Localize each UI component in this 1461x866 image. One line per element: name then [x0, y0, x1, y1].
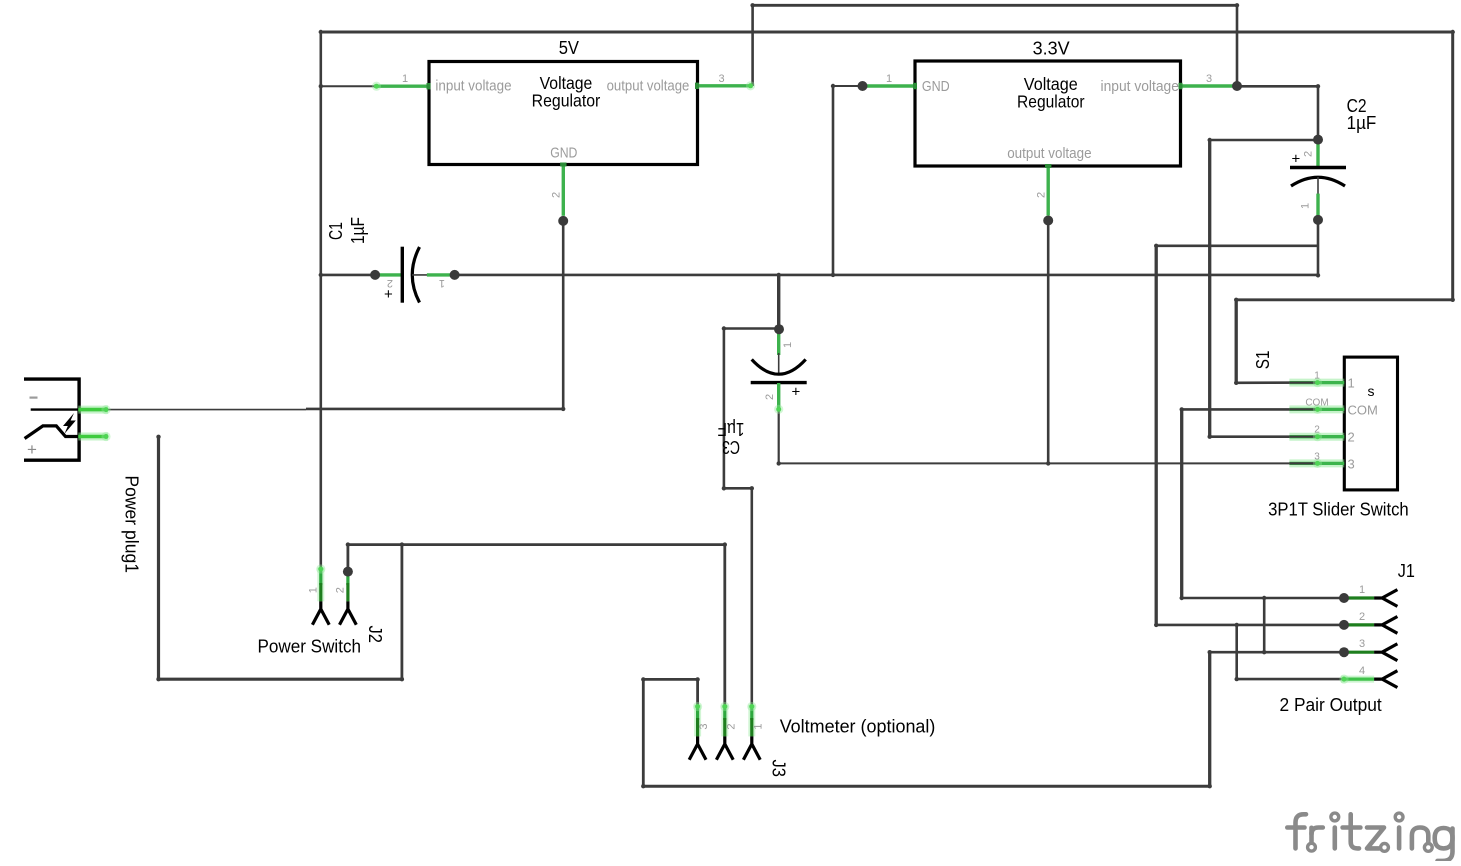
voltage regulator U2 (3.3V) body	[915, 61, 1181, 166]
svg-text:1: 1	[1300, 203, 1312, 209]
C2 pin 2 green lead	[1316, 140, 1319, 168]
svg-text:1µF: 1µF	[1347, 113, 1377, 133]
wire segment: COM vertical x=1181.7 down to J1 pin1 wire	[1180, 409, 1183, 598]
J2 pin 1 female connector symbol	[312, 601, 329, 624]
wire: J3 pin3 drop x=697.6	[696, 679, 699, 706]
wire: J1 pin3 drop x=1209.7 down to bottom rail	[1208, 652, 1211, 786]
wire: J1 pin2 wire y=624.9	[1156, 624, 1344, 627]
node: bend at (697.6,679.4)	[695, 677, 699, 681]
wire: C3 pin1 horizontal y=328.5 to voltmeter loop	[724, 327, 779, 330]
C3 curved plate	[752, 359, 806, 374]
wire segment: 5V GND vertical x=563.2	[562, 221, 565, 409]
wire: C3 pin2 drop x=778.3 to S1 pin3 rail	[778, 410, 780, 464]
node: bend at (1318,86.3)	[1316, 84, 1320, 88]
svg-text:3: 3	[718, 73, 724, 85]
node: bend at (1236.2,382.8)	[1234, 381, 1238, 385]
node: bend at (1156.2,624.9)	[1154, 623, 1158, 627]
node: T-junction at (401.9,544.6)	[400, 542, 404, 546]
svg-text:3: 3	[1314, 451, 1320, 462]
svg-text:GND: GND	[550, 145, 577, 162]
wire: S1 pin3 rail y=463.4 from C3 column to S1 pin3	[779, 462, 1318, 464]
svg-text:COM: COM	[1305, 397, 1328, 408]
svg-text:1: 1	[752, 723, 764, 729]
node: bend at (1452.7,299.8)	[1451, 298, 1455, 302]
node: bend at (643.3,786.2)	[641, 784, 645, 788]
connector J1 pin 2 green lead	[1344, 623, 1374, 626]
node: wire end dot at C2 pin1	[1313, 215, 1323, 225]
J1 pin 3 female connector symbol	[1374, 644, 1397, 661]
node: wire end dot at C3 pin1	[774, 324, 784, 334]
C1 pin 2 green lead	[375, 273, 402, 276]
node: T-junction at (778.7,274.9)	[777, 273, 781, 277]
wire: power plug minus lead thin segment	[106, 409, 306, 411]
wire segment: vertical x=723.9 from C3 row down to J3 pin1 jog	[723, 329, 726, 489]
svg-text:Regulator: Regulator	[1017, 92, 1085, 112]
wire: voltmeter loop top y=679.4	[643, 678, 697, 681]
J1 pin 1 female connector symbol	[1374, 590, 1397, 607]
node: bend at (1209.7,786.2)	[1208, 784, 1212, 788]
U2 pin 2 (output) green lead	[1046, 166, 1049, 216]
wire: power plug plus lead to J2 - vertical x=158.5	[157, 437, 160, 679]
node: top-right bend of 5V output jumper	[1235, 3, 1239, 7]
svg-text:+: +	[27, 440, 37, 459]
node: wire end dot at U2 GND	[858, 81, 868, 91]
node: T-junction at (1048.2,463.4)	[1046, 461, 1050, 465]
switch S1 body	[1344, 357, 1397, 490]
label C3 1uF (rotated 180)	[718, 419, 745, 457]
svg-text:C1: C1	[326, 222, 346, 240]
C2 curved plate	[1291, 177, 1345, 186]
svg-text:+: +	[792, 384, 801, 401]
node: wire end dot at C1 pin1	[450, 270, 460, 280]
U2 pin 3 (input) green lead	[1181, 84, 1237, 87]
S1 pin 3 green lead	[1289, 459, 1344, 467]
wire segment: horizontal y=679.2 under Power Switch	[159, 678, 402, 681]
node: bend at (1452.7,32)	[1451, 30, 1455, 34]
wire net-VIN: long horizontal rail y=32 from J2/C1 column to right edge	[321, 31, 1453, 34]
node: T-junction at (833,274.9)	[831, 273, 835, 277]
svg-text:5V: 5V	[559, 38, 579, 58]
svg-text:Power plug1: Power plug1	[122, 475, 142, 573]
wire: J2 pin2 rail y=544.6 from switch to J3 pin2 column	[348, 543, 725, 546]
S1 pin 1 green lead	[1289, 379, 1344, 387]
svg-text:2: 2	[764, 394, 776, 400]
connector J3 pin 3 green lead	[694, 705, 701, 737]
svg-text:1: 1	[1348, 376, 1355, 391]
svg-text:Power Switch: Power Switch	[258, 637, 362, 657]
C1 pin 1 green lead	[427, 273, 455, 276]
wire segment: vertical x=724.8 down to J3 pin2	[723, 545, 726, 706]
node: top-left bend of 5V output jumper	[750, 3, 754, 7]
voltage regulator U1 (5V) body	[429, 62, 698, 165]
wire: 5V regulator input pin1 wire from vertical to pin	[321, 85, 375, 87]
wire segment: vertical x=751.8 down to J3 pin1	[750, 488, 753, 706]
svg-text:1: 1	[1314, 371, 1320, 382]
svg-text:Voltmeter (optional): Voltmeter (optional)	[780, 716, 936, 736]
J2 pin 2 female connector symbol	[340, 601, 357, 624]
wire: GND branch to C3 pin1 - T from rail y=274.9	[777, 275, 780, 329]
wire: 3.3V GND branch - from pin dot left then down to GND rail	[833, 85, 863, 87]
svg-text:1: 1	[307, 587, 319, 593]
wire segment: J2 pin2 drop x=347.9	[346, 545, 349, 569]
svg-text:3: 3	[1359, 638, 1365, 650]
wire: S1 pin1 wire - vertical x=1236.2 from y=299.8	[1235, 300, 1238, 383]
wire net5V-top: 5V output to 3.3V input, top jumper	[753, 4, 1237, 7]
wire segment: main left vertical x=320.8 from rail down to J2 pin1	[319, 32, 322, 568]
svg-text:2: 2	[1314, 425, 1320, 436]
C1 pin 1 tick	[412, 274, 432, 276]
J3 pin 1 female connector symbol	[743, 736, 760, 759]
J3 pin 3 female connector symbol	[689, 736, 706, 759]
wire: J1 pin1 wire y=598.0	[1182, 597, 1344, 600]
wire: bottom rail y=786.2 from voltmeter loop to J1 pin3 column	[643, 785, 1209, 788]
U1 pin 1 (input) green lead	[374, 84, 429, 87]
J1 pin 4 female connector symbol	[1374, 671, 1397, 688]
svg-text:1: 1	[782, 342, 794, 348]
svg-text:output voltage: output voltage	[607, 78, 690, 95]
S1 pin 2 green lead	[1289, 433, 1344, 441]
node: bend at (1181.7,409.4)	[1180, 407, 1184, 411]
wire: jumper J1 pin1 to pin3, vertical x=1264.2	[1263, 598, 1266, 652]
connector J1 pin 4 green lead (highlighted)	[1341, 676, 1374, 683]
C2 pin 1 tick	[1317, 177, 1319, 197]
svg-text:1: 1	[439, 277, 445, 289]
svg-text:1: 1	[402, 73, 408, 85]
connector J3 pin 1 green lead	[748, 705, 755, 737]
power plug pin + (positive) green lead	[78, 433, 108, 441]
wire segment: C2 pin1 vertical down to GND rail corner	[1317, 220, 1320, 275]
node: bend at (1209.7,652.2)	[1208, 650, 1212, 654]
node: bend at (320.8,32)	[319, 30, 323, 34]
node: junction of x=320.8 vertical with 5V input wire	[319, 84, 323, 88]
S1 pin COM green lead	[1289, 405, 1344, 413]
node: wire end dot at J1 pin 3	[1339, 647, 1349, 657]
svg-text:COM: COM	[1348, 402, 1378, 417]
svg-text:2: 2	[1303, 151, 1315, 157]
wire segment: vertical x=1209.7 from y=140 down to S1 pin2 wire	[1208, 140, 1211, 437]
node: bend at (1181.7,598.0)	[1180, 596, 1184, 600]
power plug lightning bolt icon	[63, 413, 76, 434]
node: bend at (723.9,488.3)	[722, 486, 726, 490]
node: junction at (751.8,488.3)	[750, 486, 754, 490]
U1 pin 3 (output) green lead	[698, 84, 753, 87]
connector J1 pin 3 green lead	[1344, 651, 1374, 654]
C2 plus plate	[1290, 166, 1346, 169]
connector J2 pin 1 green lead	[317, 568, 324, 602]
wire: GND spur y=245.8 from x=1156.2 to C2 pin1 column	[1156, 245, 1318, 248]
J1 pin 2 female connector symbol	[1374, 617, 1397, 634]
svg-text:4: 4	[1359, 665, 1365, 677]
wire: power plug minus to 5V GND, thicker segment	[306, 408, 563, 411]
node: wire end dot at U2 output	[1043, 216, 1053, 226]
wire: jumper J1 pin2 to pin4, vertical x=1236.7	[1235, 625, 1238, 679]
node: junction at (1236.7,624.9)	[1235, 623, 1239, 627]
node: bend at (778.7,463.4)	[777, 461, 781, 465]
connector J2 pin 2 green lead	[346, 572, 349, 585]
power plug minus sign	[30, 397, 38, 399]
wire segment: 3.3V input pin3 vertical	[1236, 5, 1239, 86]
node: wire end dot at U2 input	[1232, 81, 1242, 91]
node: bend at (401.9,679.2)	[400, 677, 404, 681]
svg-text:+: +	[1292, 151, 1301, 168]
node: wire end dot at C2 pin2	[1313, 135, 1323, 145]
node: wire end dot at J2 pin2	[343, 567, 353, 577]
C1 plus plate	[401, 247, 404, 303]
svg-text:2: 2	[387, 277, 393, 289]
C3 plus plate	[751, 381, 807, 384]
wire: C2 pin2 horizontal y=140 toward S1 pin2 column	[1210, 139, 1318, 142]
wire: 3.3V input link from pin junction to C2 column	[1237, 85, 1318, 88]
C3 pin 2 green lead	[777, 383, 780, 410]
wire segment: 5V output pin3 vertical	[751, 5, 754, 86]
node: bend at (1209.7,140)	[1208, 138, 1212, 142]
wire net-GND horizontal rail y=274.9: C1 pin1 to C2 column x=1318	[455, 274, 1318, 277]
wire segment: vertical x=401.9 up to J2 pin2 rail	[400, 545, 403, 680]
node: bend at (1318,275.3)	[1316, 273, 1320, 277]
wire segment: vertical x=1318 down to C2 pin2	[1317, 86, 1320, 139]
node: bend at (563.2,408.9)	[561, 407, 565, 411]
node: junction at (1236.2,299.8)	[1234, 298, 1238, 302]
C2 pin 1 green lead	[1316, 194, 1319, 218]
node: bend at (833,86)	[831, 84, 835, 88]
node: bend at (158.5,436.8)	[156, 435, 160, 439]
svg-text:3: 3	[698, 723, 710, 729]
wire segment: S1 pin2 horizontal y=436.7	[1210, 435, 1318, 438]
wire net-GND horizontal rail y=274.9 left part: x=320.8 to C1 pin2	[321, 274, 375, 277]
svg-text:1: 1	[1359, 584, 1365, 596]
svg-text:input voltage: input voltage	[435, 78, 511, 95]
fritzing watermark logo	[1287, 813, 1452, 861]
power plug pin - (negative) green lead	[78, 406, 108, 414]
wire segment: GND vertical x=1156.2 down to J1 pin2 wire	[1155, 246, 1158, 625]
wire: S1 COM wire horizontal y=409.4	[1182, 408, 1318, 411]
svg-text:J1: J1	[1398, 561, 1415, 581]
svg-text:GND: GND	[922, 78, 950, 95]
svg-text:3P1T Slider Switch: 3P1T Slider Switch	[1268, 500, 1409, 520]
wire: 3.3V output vertical x=1048.2 down to S1 pin3 rail	[1047, 221, 1050, 464]
U1 pin 2 (GND) green lead	[562, 165, 565, 216]
J3 pin 2 female connector symbol	[716, 736, 733, 759]
svg-text:J3: J3	[769, 760, 789, 778]
node: wire end dot at C1 pin2	[370, 270, 380, 280]
svg-text:s: s	[1368, 383, 1375, 399]
C1 curved plate	[412, 247, 419, 303]
svg-text:C3: C3	[722, 437, 740, 457]
node: wire end dot at U1 GND	[558, 216, 568, 226]
node: wire end dot at J1 pin 2	[1339, 620, 1349, 630]
node: junction at (1264.2,598.0)	[1262, 596, 1266, 600]
svg-text:2 Pair Output: 2 Pair Output	[1280, 695, 1382, 715]
svg-text:2: 2	[1036, 192, 1048, 198]
svg-text:3: 3	[1206, 73, 1212, 85]
node: bend at (1209.7,436.7)	[1208, 435, 1212, 439]
svg-text:3.3V: 3.3V	[1033, 39, 1070, 59]
node: bend at (158.5,679.2)	[156, 677, 160, 681]
svg-text:Regulator: Regulator	[532, 91, 601, 111]
svg-text:2: 2	[1359, 611, 1365, 623]
svg-text:J2: J2	[365, 626, 385, 644]
node: bend at (723.9,328.5)	[722, 326, 726, 330]
node: junction at (1264.2,652.2)	[1262, 650, 1266, 654]
svg-text:output voltage: output voltage	[1007, 145, 1091, 162]
wire segment: S1 pin1 horizontal y=382.8	[1236, 381, 1318, 384]
wire: voltmeter loop vertical x=643.3	[642, 679, 645, 786]
connector J1 pin 1 green lead	[1344, 596, 1374, 599]
node: bend at (643.3,679.4)	[641, 677, 645, 681]
node: bend at (1236.7,679.1)	[1235, 677, 1239, 681]
C3 pin 1 green lead	[777, 331, 780, 355]
svg-text:input voltage: input voltage	[1101, 78, 1179, 95]
wire segment: right edge vertical x=1452.7 down to S1 pin1 feed	[1451, 32, 1454, 300]
C3 pin 1 tick	[778, 353, 780, 374]
svg-text:2: 2	[1348, 430, 1355, 445]
U2 pin 1 (GND) green lead	[863, 84, 916, 87]
svg-text:2: 2	[335, 587, 347, 593]
node: bend at (1156.2,245.8)	[1154, 244, 1158, 248]
wire segment: horizontal y=299.8 from S1 pin1 column to right edge	[1236, 298, 1453, 301]
svg-text:S1: S1	[1253, 351, 1273, 370]
svg-text:1: 1	[886, 73, 892, 85]
connector J3 pin 2 green lead	[721, 705, 728, 737]
svg-text:1µF: 1µF	[718, 419, 745, 439]
node: junction at (724.8,544.6)	[723, 542, 727, 546]
wire segment: jog horizontal y=488.3	[724, 487, 752, 490]
node: wire end dot at J1 pin 1	[1339, 593, 1349, 603]
node: bend at (347.9,544.6)	[346, 542, 350, 546]
svg-text:1µF: 1µF	[348, 217, 368, 244]
wire: J1 pin4 wire y=679.1	[1237, 678, 1344, 681]
node: junction of x=320.8 vertical with C1 pin2 branch	[319, 273, 323, 277]
svg-text:3: 3	[1348, 456, 1355, 471]
svg-text:2: 2	[551, 192, 563, 198]
power plug PLUG1 symbol body	[24, 379, 79, 460]
wire: J1 pin3 wire y=652.2	[1210, 651, 1344, 654]
svg-text:2: 2	[725, 723, 737, 729]
